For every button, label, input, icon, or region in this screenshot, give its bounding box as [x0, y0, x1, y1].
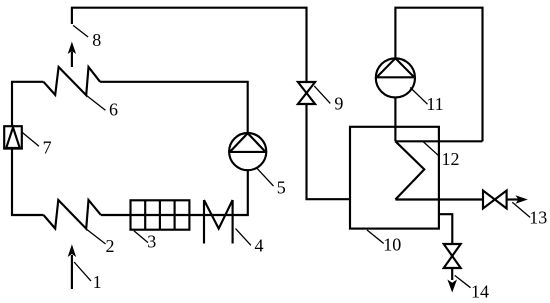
- label 14: [455, 275, 489, 301]
- grid element 3: [131, 200, 190, 229]
- tank 10: [350, 127, 439, 229]
- heat exchanger 2 (sawtooth): [44, 200, 101, 229]
- label 8: [73, 25, 101, 50]
- wire upper pipe left: zigzag 6 to left riser down to device 7: [12, 82, 44, 126]
- label 11: [410, 88, 443, 115]
- label 9: [314, 86, 343, 114]
- wire pump 11 bottom drop into tank to coil: [394, 98, 396, 142]
- wire pump 11 loop: pump top, top run, right drop to coil level: [395, 8, 482, 142]
- valve 13: [483, 191, 507, 209]
- wire device 7 down to bottom pipe toward exchanger 2: [12, 149, 44, 215]
- label 12: [423, 141, 460, 168]
- svg-text:1: 1: [93, 272, 102, 292]
- svg-text:2: 2: [106, 236, 115, 256]
- svg-text:14: 14: [471, 282, 489, 302]
- label 7: [21, 132, 51, 158]
- wire exhaust duct stub and top run to valve 9: [72, 8, 307, 82]
- arrow 14 outlet: [447, 268, 457, 293]
- arrow 1 (upward air inlet arrow): [68, 244, 76, 289]
- svg-text:10: 10: [383, 234, 401, 254]
- label 4: [236, 229, 264, 256]
- throttle valve 4 (M symbol): [204, 200, 233, 244]
- wire tank outlet jog down to valve 14: [439, 214, 452, 244]
- coil 12 (sigma heat exchange coil): [395, 141, 483, 199]
- label 2: [86, 229, 114, 256]
- label 10: [367, 230, 401, 254]
- svg-text:12: 12: [442, 149, 460, 169]
- wire valve 9 to tank 10 left inlet: [307, 104, 351, 199]
- svg-text:4: 4: [255, 235, 264, 255]
- arrow 13 outlet: [507, 195, 528, 203]
- wire bottom pipe: exchanger 2 through grid 3 and valve 4 to pump 5 riser: [101, 170, 248, 215]
- svg-text:6: 6: [109, 100, 118, 120]
- valve 9: [298, 82, 315, 104]
- svg-text:8: 8: [92, 30, 101, 50]
- pump 11: [376, 58, 415, 97]
- label 6: [86, 95, 118, 120]
- svg-text:5: 5: [277, 177, 286, 197]
- valve 14: [444, 244, 461, 268]
- label 1: [74, 262, 102, 292]
- svg-text:7: 7: [43, 138, 52, 158]
- svg-text:11: 11: [426, 94, 443, 114]
- pump 5: [229, 133, 266, 170]
- wire pump 5 top riser and upper pipe to exchanger 6: [100, 82, 248, 133]
- label 13: [512, 202, 547, 227]
- svg-text:3: 3: [147, 232, 156, 252]
- svg-text:9: 9: [334, 94, 343, 114]
- heat exchanger 6 (sawtooth): [44, 67, 101, 95]
- expansion device 7 (box with triangle): [4, 126, 22, 148]
- label 3: [134, 231, 156, 252]
- arrow 8 (upward flow arrow): [68, 42, 76, 67]
- label 5: [256, 168, 286, 198]
- svg-text:13: 13: [529, 207, 547, 227]
